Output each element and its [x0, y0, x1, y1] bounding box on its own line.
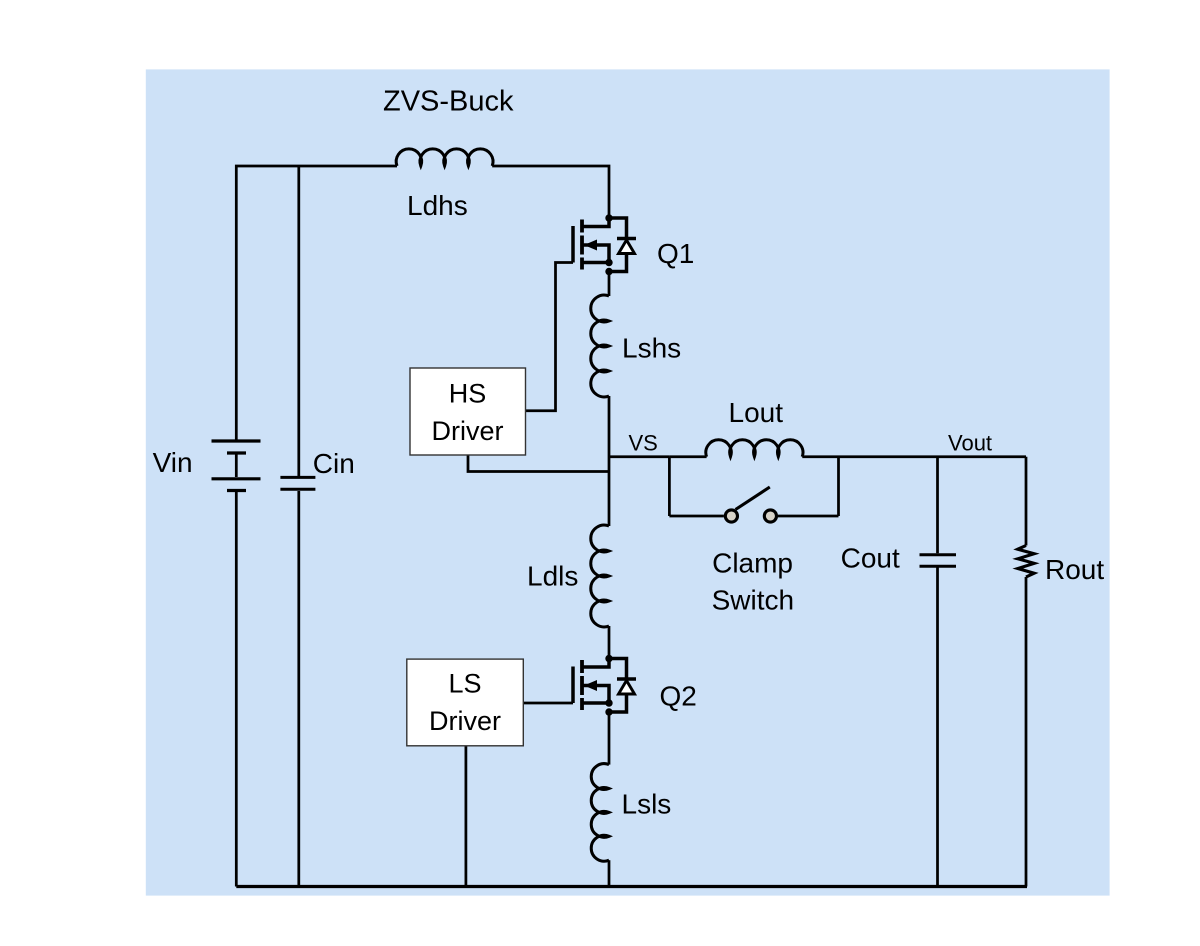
wire Rout lower — [1025, 577, 1028, 887]
wire Cin branch lower — [297, 491, 300, 887]
svg-text:Q1: Q1 — [657, 238, 694, 269]
switch contact right — [764, 510, 776, 522]
svg-text:Q2: Q2 — [660, 681, 697, 712]
box LS Driver — [407, 659, 524, 746]
svg-text:LS: LS — [448, 669, 481, 699]
wire Ldls to Q2 drain — [608, 626, 611, 656]
wire Vin lower — [235, 492, 238, 887]
clamp switch — [725, 487, 776, 522]
svg-text:VS: VS — [629, 431, 658, 456]
wire clamp bottom left — [669, 515, 724, 518]
wire Cin branch upper — [297, 166, 300, 476]
switch contact left — [725, 510, 737, 522]
capacitor Cin — [280, 477, 315, 489]
wire bottom rail — [236, 885, 1027, 888]
svg-text:Driver: Driver — [432, 416, 504, 446]
wire LS driver ground lead — [465, 746, 468, 887]
svg-text:HS: HS — [449, 379, 487, 409]
wire Q1 source to Lshs — [608, 273, 611, 296]
wire Q2 source to Lsls — [608, 713, 611, 765]
box HS Driver — [410, 368, 526, 455]
node VS rail — [609, 455, 669, 458]
wire clamp bottom right — [778, 515, 839, 518]
svg-text:Cout: Cout — [841, 542, 900, 573]
inductor Lout — [706, 440, 803, 457]
svg-text:ZVS-Buck: ZVS-Buck — [383, 86, 514, 118]
wire Rout upper — [1025, 457, 1028, 546]
inductor Ldhs — [396, 149, 493, 166]
svg-text:Driver: Driver — [429, 706, 501, 736]
inductor Ldls — [591, 525, 609, 627]
inductor Lsls — [591, 764, 609, 862]
svg-text:Cin: Cin — [313, 448, 355, 479]
svg-text:Vin: Vin — [153, 447, 193, 478]
wire Q1 gate to HS driver — [526, 263, 574, 411]
svg-text:Clamp: Clamp — [712, 547, 793, 578]
battery Vin — [212, 441, 261, 491]
wire Lout to Vout rail — [802, 455, 1026, 458]
wire VS to Lout — [669, 455, 706, 458]
svg-text:Lsls: Lsls — [622, 788, 672, 819]
svg-text:Lout: Lout — [729, 397, 784, 428]
wire Lsls to bottom rail — [608, 860, 611, 886]
transistor Q1 — [573, 214, 636, 275]
capacitor Cout — [920, 555, 957, 566]
wire HS driver output to switch node — [468, 455, 609, 471]
svg-text:Vout: Vout — [948, 431, 992, 456]
wire top rail from Vin to Ldhs — [236, 166, 397, 441]
wire Q2 gate to LS driver — [523, 702, 573, 705]
wire Cout lower — [936, 568, 939, 887]
switch blade — [736, 487, 770, 510]
svg-text:Ldls: Ldls — [527, 561, 578, 592]
svg-text:Rout: Rout — [1045, 554, 1104, 585]
svg-text:Switch: Switch — [712, 585, 794, 616]
inductor Lshs — [591, 295, 609, 397]
wire clamp left drop — [668, 457, 671, 516]
resistor Rout — [1018, 546, 1034, 578]
transistor Q2 — [573, 655, 636, 716]
svg-text:Lshs: Lshs — [622, 333, 681, 364]
wire Ldhs to Q1 drain — [492, 166, 609, 215]
wire clamp right drop — [837, 457, 840, 516]
svg-text:Ldhs: Ldhs — [407, 190, 468, 221]
wire Lshs to VS node and down — [608, 396, 611, 526]
wire Cout upper — [936, 457, 939, 554]
